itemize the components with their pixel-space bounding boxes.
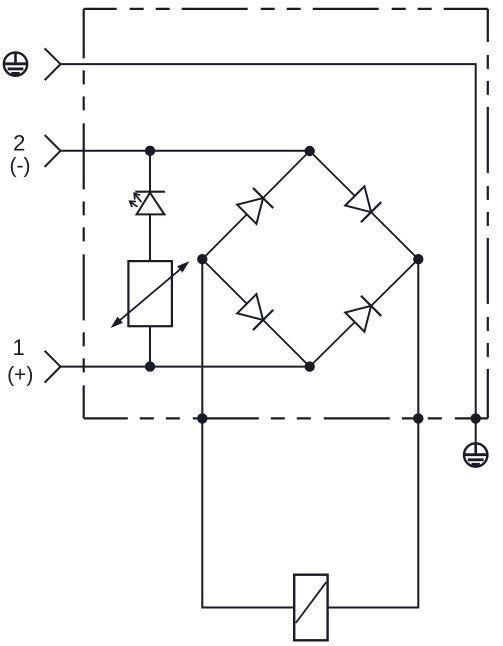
junction node bottom border right bbox=[413, 413, 423, 423]
svg-text:1: 1 bbox=[12, 335, 24, 360]
enclosure dashed border top edge bbox=[84, 8, 488, 10]
wire 1 (plus rail) bbox=[61, 366, 310, 368]
terminal chevron PE top bbox=[45, 48, 61, 80]
PE earth symbol top-left bbox=[4, 52, 27, 75]
junction node bottom border left bbox=[197, 413, 207, 423]
wire from bridge right node down and to fuse bbox=[328, 259, 419, 607]
junction node bridge bottom bbox=[305, 361, 315, 371]
wire PE from chevron across top and down right side bbox=[61, 64, 476, 419]
varistor rectangle bbox=[128, 261, 172, 326]
svg-text:(+): (+) bbox=[7, 364, 33, 387]
junction node bridge left bbox=[197, 254, 207, 264]
wire from bridge left node down and to fuse bbox=[202, 259, 294, 607]
wire PE stub to bottom-right earth symbol bbox=[475, 418, 477, 443]
wire LED branch lower segment bbox=[149, 326, 151, 366]
enclosure dashed border right edge bbox=[487, 9, 489, 419]
wire LED branch middle segment bbox=[149, 214, 151, 261]
LED cathode bar bbox=[135, 191, 165, 193]
terminal chevron 1 bbox=[45, 351, 61, 383]
LED light arrow 1 bbox=[134, 193, 141, 201]
diode D1 top-left (points to top node) bbox=[237, 188, 273, 224]
svg-text:2: 2 bbox=[13, 131, 25, 156]
terminal chevron 2 bbox=[45, 135, 61, 167]
bridge edge top-left bbox=[202, 151, 309, 259]
bridge edge bottom-right bbox=[310, 259, 419, 366]
junction node bridge top bbox=[305, 146, 315, 156]
varistor double arrow bbox=[112, 262, 188, 327]
junction node wire1 / varistor branch bbox=[145, 361, 155, 371]
fuse / decoupling element rectangle bbox=[294, 575, 327, 641]
diode D2 top-right (points to right node) bbox=[345, 186, 381, 222]
enclosure dashed border bottom edge bbox=[84, 417, 488, 419]
diode D3 bottom-left (points to bottom node) bbox=[237, 294, 273, 330]
junction node PE at bottom border bbox=[471, 413, 481, 423]
PE earth symbol bottom-right bbox=[464, 443, 487, 466]
wire LED branch upper segment bbox=[149, 151, 151, 192]
fuse diagonal stroke bbox=[296, 582, 326, 623]
wire 2 (minus rail) bbox=[61, 150, 310, 152]
bridge edge top-right bbox=[310, 151, 419, 259]
enclosure dashed border left edge bbox=[83, 9, 85, 419]
LED triangle bbox=[137, 193, 165, 215]
junction node wire2 / LED branch bbox=[145, 146, 155, 156]
LED light arrow 2 bbox=[130, 201, 137, 206]
junction node bridge right bbox=[413, 254, 423, 264]
diode D4 bottom-right (points to right node) bbox=[345, 296, 381, 332]
bridge edge bottom-left bbox=[202, 259, 309, 366]
svg-text:(-): (-) bbox=[10, 155, 31, 178]
